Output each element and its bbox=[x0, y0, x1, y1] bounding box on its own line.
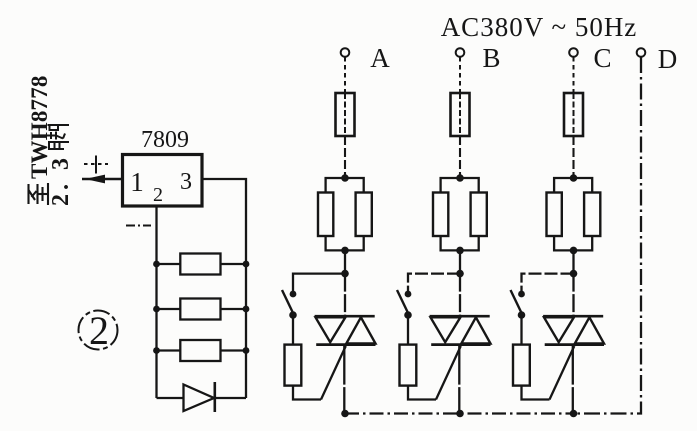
resistor (gate series, A) bbox=[285, 345, 302, 386]
junction node: bottom bus (A) bbox=[341, 410, 349, 418]
terminal C (circle) bbox=[569, 48, 578, 57]
wire: tap to switch branch (B) bbox=[408, 274, 460, 291]
wire: triac gate lead diagonal (B) bbox=[436, 346, 461, 400]
wire: bottom bus (dash-dot) bbox=[345, 412, 574, 414]
triac V (A phase) bbox=[315, 316, 376, 344]
wire: triac MT2 to bottom bus (C) bbox=[572, 345, 574, 414]
junction node: bottom of parallel resistors (A) bbox=[341, 247, 349, 255]
wire: gate resistor to triac gate (B) bbox=[408, 386, 436, 400]
pin 3 label bbox=[180, 169, 192, 195]
label: figure number ② bbox=[79, 308, 118, 353]
wire: A terminal to fuse (dashed) bbox=[344, 57, 346, 94]
pin 2 label bbox=[153, 184, 163, 206]
terminal B (circle) bbox=[456, 48, 465, 57]
label: phase C bbox=[593, 43, 611, 73]
junction node: switch-branch tap (C) bbox=[570, 270, 578, 278]
wire: switch to gate resistor (B) bbox=[407, 315, 409, 345]
label: phase A bbox=[370, 43, 390, 73]
wire: node to tap junction (A) bbox=[344, 250, 346, 273]
wire: bottom bend of parallel resistors (B) bbox=[441, 236, 479, 250]
svg-text:B: B bbox=[482, 43, 500, 73]
wire: pin 3 to right rail bbox=[202, 179, 246, 398]
wire: node to tap junction (B) bbox=[459, 250, 461, 273]
fuse B phase bbox=[451, 93, 470, 136]
fuse C phase bbox=[564, 93, 583, 136]
junction node: left rail / ladder 1 bbox=[153, 261, 160, 268]
wire: tap to switch branch (C) bbox=[522, 274, 574, 291]
triac V (C phase) bbox=[543, 316, 604, 344]
resistor (left of parallel pair, C) bbox=[547, 193, 562, 237]
junction node: bottom of parallel resistors (B) bbox=[456, 247, 464, 255]
label: phase B bbox=[482, 43, 500, 73]
svg-text:7809: 7809 bbox=[141, 127, 189, 153]
label: phase D bbox=[658, 44, 678, 74]
junction node: right rail / ladder 3 bbox=[243, 347, 250, 354]
wire: bottom return (left block) bbox=[157, 397, 247, 399]
label: − polarity mark bbox=[126, 225, 151, 227]
junction node: bottom of parallel resistors (C) bbox=[570, 247, 578, 255]
wire: input lead with arrowhead into pin 1 bbox=[82, 175, 122, 184]
junction node: left rail / ladder 3 bbox=[153, 347, 160, 354]
diode VD (bottom return) bbox=[184, 382, 215, 412]
svg-text:A: A bbox=[370, 43, 390, 73]
wire: top bend of parallel resistors (C) bbox=[554, 178, 592, 193]
triac V (B phase) bbox=[430, 316, 491, 344]
label: AC380V ~ 50Hz supply bbox=[441, 12, 638, 42]
label: 至TWH8778 (to TWH8778 pins), rotated vertical text bbox=[27, 75, 52, 205]
label: 7809 bbox=[141, 127, 189, 153]
resistor (divider ladder 1) bbox=[157, 254, 247, 275]
terminal A (circle) bbox=[341, 48, 350, 57]
junction node: right rail / ladder 1 bbox=[243, 261, 250, 268]
IC U1: 7809 regulator box bbox=[123, 155, 203, 207]
resistor (right of parallel pair, A) bbox=[356, 193, 372, 237]
junction node: switch-branch tap (B) bbox=[456, 270, 464, 278]
svg-text:D: D bbox=[658, 44, 678, 74]
svg-text:2: 2 bbox=[89, 308, 109, 353]
wire: tap to triac MT1 (C) bbox=[572, 274, 574, 317]
wire: top bend of parallel resistors (B) bbox=[441, 178, 479, 193]
wire: triac gate lead diagonal (A) bbox=[321, 346, 346, 400]
resistor (left of parallel pair, A) bbox=[318, 193, 333, 237]
wire: fuse to node (B) bbox=[459, 136, 461, 178]
junction node: top of parallel resistors (C) bbox=[570, 174, 578, 182]
resistor (divider ladder 3) bbox=[157, 340, 247, 361]
label: + polarity mark bbox=[84, 156, 108, 174]
junction node: left rail / ladder 2 bbox=[153, 306, 160, 313]
resistor (divider ladder 2) bbox=[157, 299, 247, 320]
wire: switch to gate resistor (A) bbox=[292, 315, 294, 345]
svg-text:2. 3: 2. 3 bbox=[48, 154, 74, 206]
wire: bottom bend of parallel resistors (C) bbox=[554, 236, 592, 250]
wire: node to tap junction (C) bbox=[572, 250, 574, 273]
resistor (gate series, B) bbox=[400, 345, 417, 386]
wire: tap to triac MT1 (B) bbox=[459, 274, 461, 317]
switch S (A gate branch) bbox=[282, 290, 297, 319]
wire: gate resistor to triac gate (A) bbox=[293, 386, 321, 400]
junction node: bottom bus (B) bbox=[456, 410, 464, 418]
wire: triac gate lead diagonal (C) bbox=[550, 346, 575, 400]
wire: fuse to node (A) bbox=[344, 136, 346, 178]
label: 2、3脚 (pins 2,3), rotated vertical text bbox=[47, 125, 74, 206]
svg-text:1: 1 bbox=[130, 167, 144, 197]
svg-text:C: C bbox=[593, 43, 611, 73]
wire: gate resistor to triac gate (C) bbox=[522, 386, 550, 400]
wire: switch to gate resistor (C) bbox=[520, 315, 522, 345]
terminal D (circle) bbox=[637, 48, 646, 57]
wire: top bend of parallel resistors (A) bbox=[326, 178, 364, 193]
svg-text:2: 2 bbox=[153, 184, 163, 206]
pin 1 label bbox=[130, 167, 144, 197]
wire: fuse to node (C) bbox=[572, 136, 574, 178]
svg-text:AC380V ~ 50Hz: AC380V ~ 50Hz bbox=[441, 12, 638, 42]
wire: bottom bend of parallel resistors (A) bbox=[326, 236, 364, 250]
wire: tap to switch branch (A) bbox=[293, 274, 345, 291]
wire: pin 2 left rail down bbox=[155, 207, 157, 399]
junction node: top of parallel resistors (B) bbox=[456, 174, 464, 182]
wire: tap to triac MT1 (A) bbox=[344, 274, 346, 317]
switch S (B gate branch) bbox=[397, 290, 412, 319]
junction node: bottom bus (C) bbox=[570, 410, 578, 418]
wire: triac MT2 to bottom bus (A) bbox=[343, 345, 345, 414]
resistor (gate series, C) bbox=[513, 345, 530, 386]
resistor (right of parallel pair, B) bbox=[471, 193, 487, 237]
resistor (right of parallel pair, C) bbox=[584, 193, 600, 237]
svg-text:3: 3 bbox=[180, 169, 192, 195]
fuse A phase bbox=[336, 93, 355, 136]
junction node: switch-branch tap (A) bbox=[341, 270, 349, 278]
wire: C terminal to fuse (dashed) bbox=[573, 57, 575, 94]
resistor (left of parallel pair, B) bbox=[433, 193, 448, 237]
wire: triac MT2 to bottom bus (B) bbox=[458, 345, 460, 414]
wire: D line down to bus (dash-dot) bbox=[574, 57, 642, 414]
switch S (C gate branch) bbox=[511, 290, 526, 319]
wire: B terminal to fuse (dashed) bbox=[459, 57, 461, 94]
junction node: right rail / ladder 2 bbox=[243, 306, 250, 313]
junction node: top of parallel resistors (A) bbox=[341, 174, 349, 182]
